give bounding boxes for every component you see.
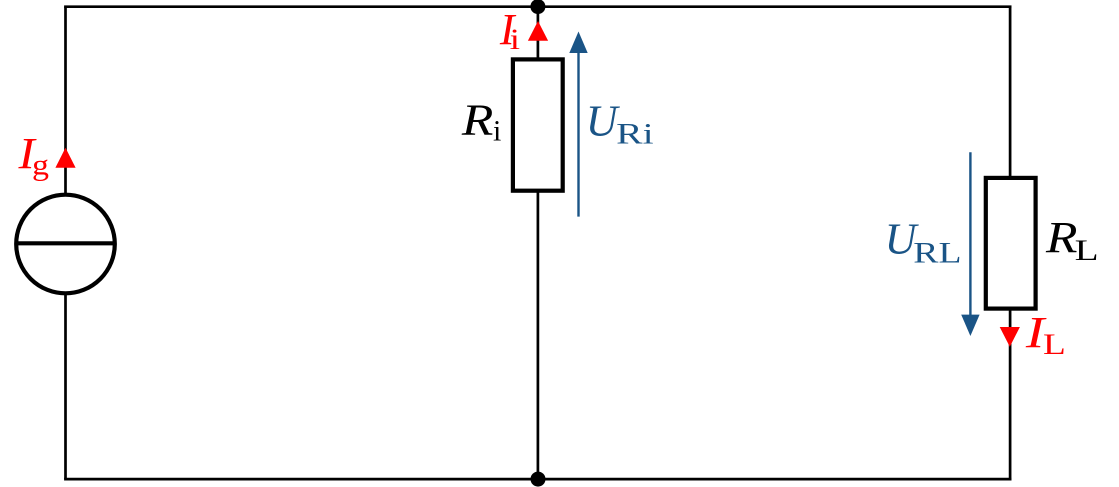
- svg-text:g: g: [32, 149, 49, 182]
- label Ig: [17, 129, 49, 181]
- svg-text:i: i: [510, 23, 520, 56]
- wire right lower (RL bottom lead): [1009, 308, 1012, 479]
- label URL: [885, 215, 962, 270]
- wire middle lower (Ri bottom lead): [537, 191, 540, 479]
- svg-text:i: i: [493, 114, 501, 147]
- label IL: [1025, 308, 1066, 361]
- wire left upper (source top lead): [64, 7, 67, 197]
- svg-text:R: R: [1045, 213, 1078, 262]
- current arrow Ii (red, up): [528, 21, 548, 41]
- voltage arrow URi (blue, up): [569, 32, 587, 217]
- label RL: [1045, 213, 1099, 267]
- current arrow IL (red, down): [1000, 327, 1020, 347]
- node bottom (junction dot): [531, 472, 546, 487]
- label Ri: [461, 96, 502, 148]
- svg-text:RL: RL: [913, 237, 961, 270]
- wire bottom: [64, 478, 1011, 481]
- wire left lower (source bottom lead): [64, 292, 67, 479]
- svg-text:Ri: Ri: [616, 118, 653, 151]
- voltage arrow URL (blue, down): [961, 152, 979, 336]
- current arrow Ig (red, up): [55, 148, 75, 168]
- svg-text:R: R: [461, 96, 494, 145]
- node top (junction dot): [530, 0, 545, 14]
- label Ii: [499, 5, 520, 56]
- label URi: [586, 97, 654, 151]
- resistor Ri body: [513, 59, 563, 190]
- svg-text:L: L: [1043, 328, 1066, 361]
- wire top: [64, 5, 1011, 8]
- svg-text:L: L: [1075, 234, 1099, 267]
- wire right upper (RL top lead): [1009, 7, 1012, 178]
- current source Ig (circle with horizontal bar): [16, 195, 115, 294]
- wire middle upper (Ri top lead): [537, 7, 540, 60]
- resistor RL body: [986, 178, 1036, 309]
